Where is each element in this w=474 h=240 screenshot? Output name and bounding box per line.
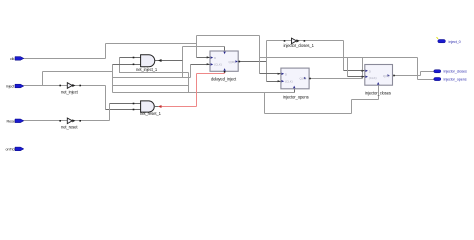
wire horizontal y77.5 (113, 77, 191, 79)
svg-text:delayed_inject: delayed_inject (211, 77, 237, 82)
svg-text:injector_opens: injector_opens (444, 77, 467, 81)
wire clk net horizontal from port (24, 58, 106, 60)
input port onTick (6, 147, 24, 151)
junction dot red at delayed_inject bottom pin (224, 71, 226, 73)
wire net_inject extension y85.5 (113, 85, 189, 87)
svg-text:injector_closes: injector_closes (444, 70, 468, 74)
arrow into delayed_inject C (207, 63, 210, 65)
and-gate net_inject_1 (133, 55, 162, 72)
wire delayed_inject D feed (197, 57, 210, 59)
wire injector_closes_1 row (267, 40, 344, 42)
wire net_inject row from port (24, 85, 106, 87)
wire vertical x188.5 down (188, 73, 190, 93)
wire delayed_inject Q out (239, 61, 266, 63)
output port inject_0 with yellow tick (437, 37, 461, 44)
wire AND1 in1 riser x119.5 (119, 58, 121, 73)
wire clk net vertical riser (105, 44, 107, 59)
output port injector_closes (434, 70, 467, 74)
wire injector_closes bottom pin stub (378, 85, 380, 99)
wire AND1 in2 stub (113, 64, 141, 66)
wire injector_opens Q out (310, 78, 363, 80)
wire injector_opens C stub (267, 81, 281, 83)
block delayed_inject (210, 51, 240, 82)
wire riser x351.5 (351, 100, 353, 114)
and-gate net_reset_1 (133, 101, 162, 116)
wire net_reset riser to AND2 in1 (109, 104, 111, 121)
wire vertical x112.5 (112, 65, 114, 93)
block injector_closes (365, 65, 395, 96)
wire long horizontal y57.5 (260, 57, 418, 59)
arrow into injector_closes D (362, 70, 365, 72)
arrow into delayed_inject D (207, 56, 210, 58)
wire net_inject drop to AND2 in2 x105.5 (105, 86, 107, 110)
svg-text:injector_closes_1: injector_closes_1 (284, 43, 315, 48)
svg-text:Q(R): Q(R) (229, 60, 236, 64)
wire inject branch riser x42.5 (42, 72, 44, 86)
wire riser x362.5 (362, 58, 364, 79)
svg-text:(CLK): (CLK) (369, 76, 377, 80)
buffer net_inject (59, 83, 81, 95)
wire AND1 output (155, 60, 183, 62)
wire injector_closes C stub (348, 76, 365, 78)
wire red vertical x196.5 (196, 74, 198, 107)
wire AND1 out to delayed_inject top pin y46.5 (183, 46, 225, 48)
wire horizontal y99.5 (352, 99, 379, 101)
wire AND2 output stub (155, 106, 159, 108)
buffer net_reset (59, 118, 81, 129)
wire delayed_inject C feed horizontal (191, 64, 210, 66)
wire to injector_opens port (418, 79, 434, 81)
wire drop x343.5 to injector_closes D (343, 41, 345, 71)
svg-text:injector_opens: injector_opens (283, 94, 309, 99)
input port inject (6, 84, 24, 88)
arrow into injector_closes C (362, 76, 365, 78)
arrow into injector_opens C (278, 80, 281, 82)
wire vertical x259.5 to injector_opens D (259, 36, 261, 74)
wire horizontal y72.5 (119, 72, 189, 74)
wire delayed_inject C feed riser x190.5 (190, 65, 192, 78)
wire inject raw branch horizontal y71.5 (43, 71, 113, 73)
wire injector_opens bottom pin stub (294, 89, 296, 93)
wire clk net top horizontal (106, 43, 197, 45)
wire red horizontal y73.5 (197, 73, 225, 75)
wire AND1 in1 stub (120, 57, 141, 59)
wire output jog riser x420.5 (420, 72, 422, 76)
svg-text:(CLK): (CLK) (214, 63, 222, 67)
wire drop x417.5 (417, 58, 419, 80)
input port clk (10, 57, 24, 61)
wire red delayed_inject bottom pin stub (224, 71, 226, 73)
wire injector_opens D stub (260, 73, 281, 75)
input port Reset (7, 119, 24, 123)
svg-text:injector_closes: injector_closes (365, 91, 391, 96)
wire injector_closes D stub (344, 70, 365, 72)
svg-text:Q(R): Q(R) (383, 74, 390, 78)
wire to injector_closes port (421, 71, 434, 73)
svg-text:clk: clk (10, 57, 15, 61)
svg-text:net_reset: net_reset (61, 124, 78, 129)
wire drop x347.5 to injector_closes C (347, 58, 349, 77)
svg-text:inject: inject (6, 85, 15, 89)
svg-text:net_inject: net_inject (61, 90, 79, 95)
svg-text:Q(R): Q(R) (300, 77, 307, 81)
svg-text:inject_0: inject_0 (449, 40, 461, 44)
wire top horizontal y35.5 (197, 35, 260, 37)
wire red net_reset_1 horizontal (161, 106, 196, 108)
wire AND1 output vertical x182.5 (182, 47, 184, 78)
svg-text:net_reset_1: net_reset_1 (140, 111, 162, 116)
wire bottom horizontal y115.5 (265, 113, 352, 115)
wire vertical x266.5 buffer feed and injector_opens C feed (266, 41, 268, 82)
svg-text:net_inject_1: net_inject_1 (136, 67, 158, 72)
output port injector_opens (434, 77, 467, 81)
wire Reset row (24, 120, 110, 122)
block injector_opens (281, 68, 311, 99)
wire vertical x196.5 to delayed_inject D (196, 36, 198, 58)
buffer injector_closes_1 (284, 38, 315, 48)
wire long y92.5 (113, 92, 295, 94)
wire drop x264.5 (264, 93, 266, 114)
wire AND2 in1 stub (110, 103, 141, 105)
svg-text:(CLK): (CLK) (285, 80, 293, 84)
wire AND2 in2 stub (106, 109, 141, 111)
wire delayed_inject top pin drop (224, 47, 226, 52)
arrow into injector_opens D (278, 73, 281, 75)
svg-text:onTick: onTick (6, 148, 17, 152)
wire injector_closes Q row y75.5 (394, 75, 421, 77)
